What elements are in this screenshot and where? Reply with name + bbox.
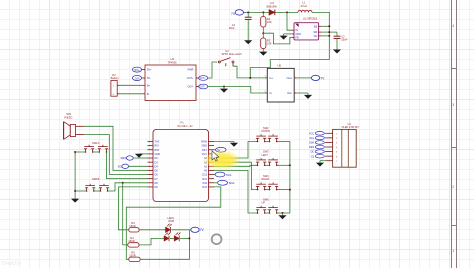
ground boost [307,93,309,95]
wire SW4 to rail [277,189,290,191]
svg-text:22uF: 22uF [229,26,235,30]
op-amp U2 MP2303 buck IC [292,16,321,40]
wire D9 row [118,186,147,188]
junction [289,164,291,166]
svg-text:RXI: RXI [155,145,159,148]
svg-text:L1: L1 [303,0,306,4]
svg-text:RST: RST [202,149,207,152]
junction [223,86,225,88]
svg-text:BS: BS [314,25,318,28]
wire SW node rail [250,12,329,78]
svg-text:RGB: RGB [169,219,175,223]
svg-text:In-: In- [269,91,272,95]
wire 7V rail top [246,11,298,13]
connector P2 Battery [111,73,120,96]
button SW3 left [257,162,259,165]
net flag SDA [218,180,235,185]
svg-text:47uH: 47uH [301,4,307,8]
junction [286,11,288,13]
wire SDA stub [214,182,217,184]
wire boost Out+ to 7V [297,77,312,79]
wire D10 to R5 [126,187,221,259]
wire A0 to SW5 [214,170,258,213]
wire rail to SW1A [75,151,85,153]
button SW2 left [257,138,259,141]
wire R5 to LED common [140,230,189,259]
op-amp U6 boost module [265,64,297,102]
ground R2 [262,49,264,52]
resistor R5 150R [129,257,140,261]
svg-text:U6: U6 [278,64,282,68]
svg-text:SP1: SP1 [66,112,72,116]
wire R4 to LED [139,238,164,245]
svg-text:B+: B+ [147,84,151,87]
wire A2 to SW4 [214,162,258,189]
wire SW1A to D7 [107,152,148,179]
wire D9 to R3 [118,187,128,230]
svg-text:5V-: 5V- [147,77,151,80]
wire OUT+ to switch [199,62,218,78]
net flag DC [118,164,129,168]
wire R3 to LED [139,229,165,231]
ground P1 right [233,142,235,143]
svg-text:U3: U3 [171,57,175,61]
button SW5 right [269,210,271,213]
svg-text:B5819W: B5819W [267,4,278,8]
svg-text:D12: D12 [202,178,207,181]
svg-text:OLED 0.96 SPI: OLED 0.96 SPI [342,126,359,129]
wire SW5 mid [265,212,270,214]
resistor R2 10K [261,38,266,49]
resistor R1 lead [262,12,264,16]
junction [74,151,76,153]
net flag 7V input [231,10,246,16]
resistor R3 150R [129,228,139,232]
svg-text:D10: D10 [202,186,207,189]
ground C2 [336,38,338,49]
button SW1B left [86,188,88,191]
svg-text:D1: D1 [271,1,275,5]
wire U2 IN to rail [287,12,292,30]
svg-text:SCL: SCL [309,137,314,140]
svg-text:DOWN: DOWN [262,129,270,133]
svg-text:DC: DC [311,151,315,154]
svg-text:RES: RES [121,156,127,160]
net flags OLED [309,132,326,159]
svg-text:OUT-: OUT- [199,86,205,89]
button SW1A right [98,149,100,152]
svg-text:Out-: Out- [287,91,292,95]
svg-text:GND: GND [155,153,161,156]
svg-text:TX0: TX0 [155,141,160,144]
svg-text:In+: In+ [269,76,273,80]
net flag 5V- [132,76,142,81]
svg-text:SPDT slide switch: SPDT slide switch [222,53,243,56]
net flag 7V LED [191,227,205,232]
wire R1 bottom [262,27,264,33]
svg-text:3: 3 [452,103,454,107]
svg-text:CS: CS [311,155,315,158]
svg-text:U2: U2 [303,16,307,20]
sheet border [452,0,457,268]
junction [74,190,76,192]
junction [328,35,330,37]
wire SW1 left rail [74,152,76,199]
svg-text:SCL: SCL [226,173,232,177]
ground C1 [247,19,249,40]
svg-text:150R: 150R [129,253,135,257]
mounting hole [212,234,222,244]
svg-text:DC: DC [118,165,122,169]
wire battery B+ [120,84,143,86]
svg-text:150R: 150R [128,239,134,243]
svg-text:7V: 7V [200,228,205,232]
wire LED mid [170,237,174,239]
junction [328,25,330,27]
connector U1 OLED 0.96 SPI [326,122,359,167]
svg-text:OUT-: OUT- [188,86,194,89]
svg-text:MP2303: MP2303 [308,17,318,21]
svg-text:5V-: 5V- [135,76,140,80]
button SW1B right [99,188,101,191]
speaker SP1 PIEZO [64,112,84,139]
wire U2 GND [284,33,292,35]
button SW3 right [269,162,271,165]
junction [262,11,264,13]
wire RES to D2 [133,157,147,159]
wire SW1A mid [93,151,100,153]
svg-text:2: 2 [452,185,454,189]
junction [247,11,249,13]
svg-text:D13: D13 [202,174,207,177]
svg-text:OUT+: OUT+ [187,77,194,80]
svg-text:LEFT: LEFT [262,153,269,157]
svg-text:Out+: Out+ [286,76,292,80]
diode D1 B5819W [267,1,278,15]
svg-text:10K: 10K [267,20,272,24]
wire OUT- to boost [199,87,265,94]
button SW5 left [257,210,259,213]
svg-text:1: 1 [452,249,454,253]
wire SW3 to rail [277,164,290,166]
wire LED red out [172,229,190,231]
wire U2 BS [321,25,329,27]
wire rail to SW1B [75,190,87,192]
op-amp U3 TP4056 charger IC [142,57,198,101]
wire to 7V flag [189,229,190,231]
svg-text:RES: RES [309,146,314,149]
resistor R4 150R [128,243,139,247]
wire D8 branch to R4 [123,183,128,245]
ground buttons [282,213,284,215]
svg-text:D11: D11 [203,182,208,185]
svg-text:VCC: VCC [309,132,314,135]
svg-text:RAW: RAW [201,141,207,144]
wire P1 RAW gnd [214,141,234,143]
button SW4 right [269,186,271,189]
wire U2 SW to C2 [321,31,337,33]
LED LED1 red [166,227,171,233]
junction [289,189,291,191]
wire speaker pin2 to D6 [84,135,148,175]
wire LED blue out [180,237,189,239]
net flag 5V right [216,147,226,152]
wire SW1B mid [94,190,101,192]
svg-text:SDA: SDA [229,181,235,185]
svg-text:PIEZO: PIEZO [64,116,72,120]
wire boost Out- [297,92,308,94]
button SW4 left [257,186,259,189]
wire battery B- [120,93,143,95]
svg-text:4: 4 [452,24,454,28]
wire SCL stub [214,174,215,176]
wire R1-R2 [262,33,264,38]
svg-text:Pro Mini - 3v: Pro Mini - 3v [178,124,194,128]
svg-text:Battery: Battery [111,76,120,80]
wire A1 to SW3 [214,165,258,166]
LED LED1 blue [174,236,179,242]
svg-text:UP: UP [262,201,266,205]
svg-text:FB: FB [296,36,299,39]
svg-text:EasyEDA: EasyEDA [2,261,21,266]
wire buttons right rail [289,142,291,214]
svg-text:150R: 150R [129,224,135,228]
ground OLED [319,161,321,163]
wire DC to D4 [129,165,148,167]
wire FB network [263,33,292,44]
svg-text:5V+: 5V+ [147,69,152,72]
svg-text:RIGHT: RIGHT [262,177,270,181]
net flag OUT+ [199,76,208,81]
wire switch to boost In+ [233,66,265,78]
wire SW1B to D8 [108,183,148,191]
net flag RES [121,156,134,160]
svg-text:SW1A: SW1A [92,141,100,145]
svg-text:PWR: PWR [188,69,194,72]
junction [328,31,330,33]
wire VCC flag stub [214,149,216,151]
wire speaker pin1 to D5 [84,126,148,170]
wire P1 GND left [139,153,148,155]
svg-text:5V+: 5V+ [134,68,140,72]
junction [262,32,264,34]
wire SW2 mid [265,141,270,143]
ground U2 [283,34,285,36]
LED LED1 green [164,236,169,242]
wire OLED gnd pin [320,160,326,162]
junction [282,212,284,214]
ground P1 GND [138,153,140,155]
svg-text:OUT+: OUT+ [199,77,206,80]
net flag OUT- [199,84,208,89]
net flag 7V output [311,75,326,80]
ground OUT- [223,87,225,89]
junction [122,182,124,184]
junction [249,77,251,79]
junction [188,237,190,239]
wire SW2 to rail [277,141,290,143]
capacitor C1 22uF [247,12,249,17]
wire U2 NC [321,35,329,37]
net flag SCL [215,172,232,177]
svg-text:SDA: SDA [309,142,314,145]
button SW2 right [269,138,271,141]
op-amp P1 Pro Mini - 3v MCU [148,121,215,202]
wire A3 to SW2 [214,142,258,159]
yellow highlight [203,150,241,170]
svg-text:TP4056: TP4056 [168,60,178,64]
svg-text:GND: GND [201,145,207,148]
resistor R1 10K [261,17,266,28]
svg-text:RST: RST [155,149,160,152]
wire SW4 mid [265,189,270,191]
svg-text:SW1B: SW1B [92,177,100,181]
switch U4 SPDT slide switch [218,49,242,66]
svg-text:7V: 7V [320,76,325,80]
svg-text:B-: B- [147,93,150,96]
wire SW3 mid [265,164,270,166]
svg-text:10K: 10K [267,42,272,46]
svg-text:IN: IN [296,29,299,32]
ground SW1 rail [71,199,79,203]
net flag 5V+ [132,67,142,72]
svg-text:22uF: 22uF [341,38,347,42]
capacitor C2 22uF [336,32,338,36]
wire SW5 to rail [277,212,290,214]
inductor L1 47uH [298,0,312,12]
button SW1A left [85,149,87,152]
svg-text:NC: NC [314,35,318,38]
mouse cursor [212,151,219,161]
